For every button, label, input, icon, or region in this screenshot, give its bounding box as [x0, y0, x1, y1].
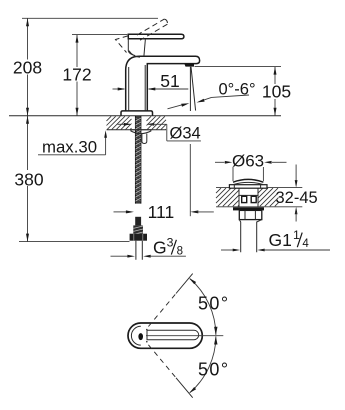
dimension 32-45 [276, 165, 318, 222]
label diameter 34 [166, 124, 168, 141]
G3/8 threaded tube [136, 241, 142, 260]
lever slot top view [147, 330, 199, 339]
mounting nut below deck [131, 130, 151, 134]
G3/8 dimension arrows [111, 236, 186, 258]
swing line lower solid end [176, 378, 193, 398]
svg-text:32-45: 32-45 [276, 189, 318, 207]
svg-text:3: 3 [167, 236, 174, 250]
handle stem [144, 39, 146, 56]
svg-text:51: 51 [160, 71, 179, 91]
pivot pin dot [138, 333, 143, 340]
raised stem dashed [116, 36, 129, 53]
svg-text:G1: G1 [269, 230, 292, 250]
drain deck hatch left [216, 188, 239, 206]
faucet base plate [121, 111, 153, 116]
svg-text:50°: 50° [198, 359, 229, 379]
drain lock nut [239, 210, 261, 219]
handle front edge [128, 39, 135, 56]
svg-text:105: 105 [262, 82, 291, 102]
water stream 6deg line [191, 67, 196, 111]
arc arrow upper-inner [214, 327, 217, 336]
svg-text:208: 208 [13, 57, 42, 77]
label max.30 [38, 130, 107, 156]
raised lever dashed bottom edge [140, 24, 167, 40]
slot corner dots [146, 329, 148, 331]
deck hatch left [107, 116, 132, 129]
arc arrow upper-outer [189, 278, 196, 284]
dimension 51 [113, 71, 189, 91]
swing line upper solid end [176, 274, 193, 294]
drain collar line [239, 194, 258, 196]
raised lever dashed top edge [137, 19, 164, 35]
dimension 208 [13, 18, 42, 116]
hose braid texture [135, 118, 141, 201]
drain cap flange [229, 185, 267, 189]
dimension 105 [262, 67, 291, 116]
svg-text:50°: 50° [198, 294, 229, 314]
water stream vertical line [189, 67, 191, 111]
spout axis extension line [189, 144, 191, 216]
svg-text:Ø63: Ø63 [232, 152, 264, 171]
drain washer below deck [233, 207, 264, 210]
svg-text:380: 380 [14, 169, 43, 189]
dimension 172 [62, 35, 91, 116]
stem wedge detail [129, 51, 140, 58]
lever handle rest position [128, 34, 184, 39]
svg-text:4: 4 [302, 238, 309, 250]
faucet body and spout outline [126, 56, 200, 111]
svg-text:111: 111 [148, 202, 175, 222]
countertop deck top line [9, 115, 281, 117]
svg-text:8: 8 [177, 246, 183, 258]
svg-text:1: 1 [293, 228, 300, 242]
dimension G1 1/4 [221, 228, 330, 252]
drain cap dome inner line [233, 182, 263, 184]
nut facet lines [245, 210, 255, 219]
braided collar above nut [133, 225, 143, 233]
swing angle arc lower [190, 336, 216, 392]
drain cap dome [233, 179, 263, 182]
angle annotation left arrow [168, 81, 256, 109]
G3/8 hex nut [130, 234, 147, 241]
extension line max handle height [22, 17, 158, 19]
extension line lever top [72, 34, 127, 36]
dimension 380 [14, 116, 43, 242]
drain window right [251, 196, 256, 202]
dimension arrows hole diameter 34 [118, 123, 201, 143]
svg-text:max.30: max.30 [42, 137, 97, 156]
dimension diameter 63 [215, 152, 287, 181]
dimension 111 [114, 202, 214, 222]
drain threaded tail [239, 220, 261, 253]
raised lever dashed tip [164, 19, 167, 24]
drain deck hatch right [258, 188, 279, 206]
drain body in deck [239, 188, 258, 207]
flange inner ticks [234, 185, 260, 189]
drain deck top line [216, 187, 302, 189]
arc arrow lower-inner [214, 336, 217, 345]
axis centreline [146, 335, 223, 337]
outlet height extension line [195, 66, 282, 68]
inner cap arc [131, 326, 140, 345]
body reflection line right [144, 65, 146, 111]
threaded shank braided hose upper run [135, 116, 141, 204]
deck hatch right [147, 116, 167, 129]
deck bottom line [107, 129, 167, 131]
braided hose lower run [135, 217, 141, 226]
svg-text:172: 172 [62, 64, 91, 84]
svg-text:Ø34: Ø34 [170, 125, 201, 143]
handle top view stadium outline [128, 323, 202, 348]
body reflection line left [128, 67, 130, 111]
drain window left [242, 196, 247, 202]
swing line upper dashed [148, 294, 176, 327]
drain deck bottom line [216, 206, 302, 208]
svg-text:G: G [153, 238, 167, 258]
arc arrow lower-outer [189, 387, 196, 393]
hose end reference line [19, 241, 130, 243]
swing angle arc upper [190, 279, 216, 335]
mousseur outlet [184, 64, 194, 67]
angle annotation right arrow leader [203, 97, 212, 100]
swing line lower dashed [148, 345, 176, 378]
pull rod stub [142, 134, 147, 144]
svg-text:0°-6°: 0°-6° [219, 81, 256, 99]
